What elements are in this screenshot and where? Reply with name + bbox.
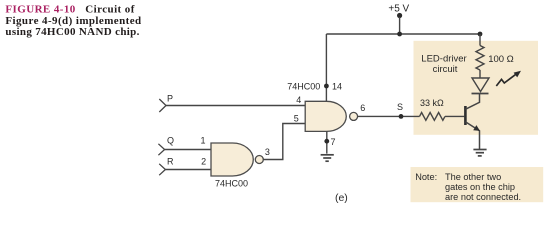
- svg-text:5: 5: [294, 114, 299, 124]
- svg-text:74HC00: 74HC00: [287, 82, 320, 92]
- transistor Q1: [465, 94, 480, 150]
- svg-text:100 Ω: 100 Ω: [488, 54, 514, 65]
- svg-text:2: 2: [201, 156, 206, 166]
- wire: R to pin 2: [165, 169, 211, 171]
- node S dot: [399, 114, 404, 119]
- svg-text:are not connected.: are not connected.: [445, 192, 521, 202]
- LED D1: [472, 78, 490, 94]
- svg-text:FIGURE 4-10Circuit of: FIGURE 4-10Circuit of: [5, 3, 134, 15]
- svg-text:circuit: circuit: [433, 64, 458, 75]
- svg-text:7: 7: [330, 137, 335, 147]
- svg-text:gates on the chip: gates on the chip: [445, 182, 515, 192]
- wire: pin 7 to ground: [326, 131, 328, 153]
- LED-driver circuit shaded box: [414, 41, 539, 135]
- svg-text:Q: Q: [167, 136, 174, 146]
- svg-text:R: R: [167, 156, 174, 166]
- svg-text:3: 3: [265, 147, 270, 157]
- wire: 33k to base: [445, 115, 464, 117]
- LED light emission arrow: [496, 71, 521, 86]
- svg-text:1: 1: [200, 136, 205, 146]
- svg-text:74HC00: 74HC00: [215, 179, 248, 189]
- ground symbol (emitter): [473, 150, 486, 156]
- input terminal R: [159, 156, 174, 175]
- resistor 33k: [420, 98, 445, 120]
- note box: [411, 167, 544, 202]
- svg-text:The other two: The other two: [445, 172, 501, 182]
- wire: +5V rail: [326, 33, 480, 35]
- wire: rail down to pin 14: [325, 34, 327, 101]
- NAND gate U1b (pins 4,5,6): [305, 101, 357, 131]
- svg-text:(e): (e): [335, 192, 348, 204]
- svg-text:using 74HC00 NAND chip.: using 74HC00 NAND chip.: [5, 26, 139, 38]
- junction dot rail to 100 ohm: [478, 32, 483, 37]
- svg-text:4: 4: [296, 95, 301, 105]
- svg-text:+5 V: +5 V: [388, 3, 409, 14]
- resistor 100 ohm: [476, 34, 514, 78]
- input terminal Q: [158, 136, 174, 156]
- svg-text:6: 6: [360, 103, 365, 113]
- svg-text:LED-driver: LED-driver: [421, 54, 466, 65]
- ground symbol (pin 7): [321, 155, 334, 161]
- wire: pin 6 to 33k resistor: [358, 115, 420, 117]
- svg-text:S: S: [397, 102, 403, 112]
- wire: P to pin 4: [166, 105, 305, 107]
- svg-text:Note:: Note:: [415, 172, 437, 182]
- figure caption: [5, 3, 141, 38]
- svg-text:P: P: [167, 94, 173, 104]
- junction dot at +5V on rail: [397, 32, 402, 37]
- input terminal P: [159, 94, 173, 112]
- pin 7 dot: [324, 139, 329, 144]
- pin 14 dot: [324, 84, 329, 89]
- wire: Q to pin 1: [165, 149, 211, 151]
- wire: pin 3 to pin 5: [263, 124, 305, 160]
- svg-text:33 kΩ: 33 kΩ: [420, 98, 444, 108]
- svg-text:Figure 4-9(d) implemented: Figure 4-9(d) implemented: [5, 15, 141, 27]
- +5 V supply terminal: [388, 3, 409, 34]
- NAND gate U1a (pins 1,2,3): [211, 143, 263, 176]
- svg-text:14: 14: [332, 82, 342, 92]
